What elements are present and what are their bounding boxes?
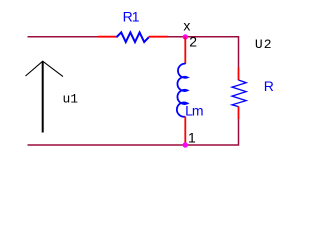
- wire top-left segment: [28, 36, 99, 38]
- resistor R pin bottom: [238, 106, 240, 119]
- inductor Lm pin top: [184, 37, 186, 64]
- wire from node x to top-right corner: [185, 37, 238, 68]
- svg-text:x: x: [183, 18, 190, 34]
- node x junction dot: [183, 34, 188, 39]
- svg-text:2: 2: [189, 34, 197, 50]
- svg-text:R1: R1: [123, 9, 140, 25]
- source arrow u1 shaft: [42, 62, 44, 133]
- svg-text:Lm: Lm: [185, 103, 203, 119]
- svg-text:u1: u1: [63, 92, 79, 107]
- wire from R1 to node x: [168, 36, 185, 38]
- wire right-bottom segment: [28, 119, 239, 145]
- node 1 junction dot: [183, 142, 188, 147]
- inductor Lm pin bottom: [184, 116, 186, 143]
- resistor R1 pin left: [98, 36, 117, 38]
- svg-text:1: 1: [188, 130, 196, 146]
- resistor R pin top: [238, 68, 240, 81]
- resistor R1 zigzag: [117, 32, 149, 42]
- source arrow u1 head: [26, 61, 64, 76]
- resistor R zigzag: [232, 80, 246, 107]
- svg-text:R: R: [264, 78, 274, 94]
- svg-text:U2: U2: [255, 37, 273, 52]
- resistor R1 pin right: [149, 36, 168, 38]
- inductor Lm coil: [177, 64, 188, 117]
